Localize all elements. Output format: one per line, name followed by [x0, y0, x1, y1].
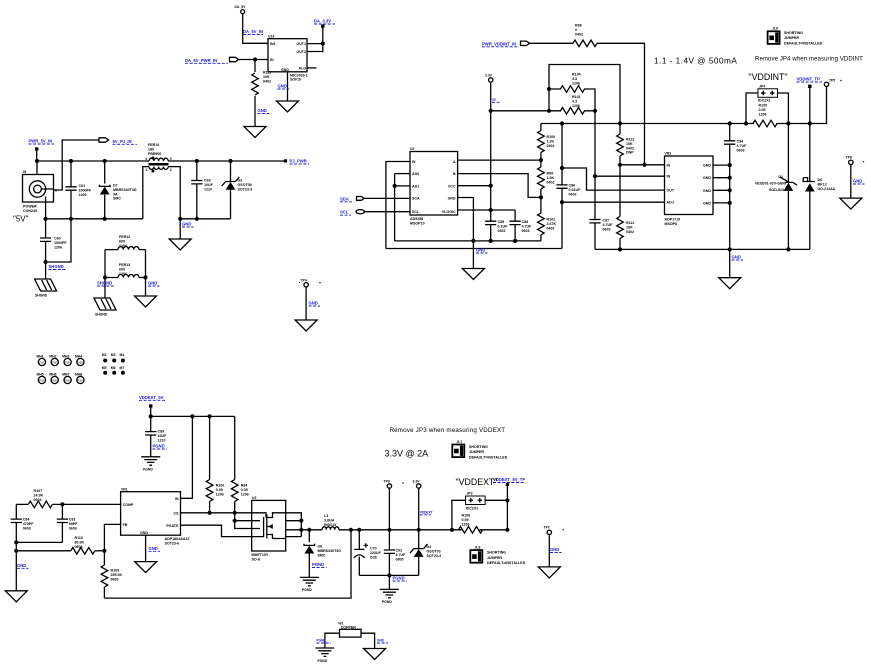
junctions on U3 ground rail — [489, 239, 493, 243]
wire JP4 across R105 — [746, 93, 788, 124]
svg-text:M6: M6 — [111, 366, 116, 370]
shorting jumper icon JP8 — [470, 546, 525, 565]
fiducial M7 — [120, 366, 125, 375]
junction — [593, 174, 597, 178]
svg-text:DNP: DNP — [626, 151, 634, 155]
junctions on 3.3V column — [489, 109, 493, 113]
junction — [539, 195, 543, 199]
wire VDDEXT output rail — [339, 529, 508, 531]
ground under TP8 — [840, 198, 862, 209]
wire input ground rail — [46, 218, 143, 220]
svg-text:0402: 0402 — [547, 144, 555, 148]
mounting hole MH5 — [37, 373, 46, 384]
svg-text:PGND: PGND — [382, 600, 392, 604]
svg-text:D3: D3 — [238, 179, 243, 183]
capacitor C84 470PF 0603 — [11, 504, 34, 542]
svg-text:0.05: 0.05 — [759, 108, 766, 112]
svg-text:M2: M2 — [102, 353, 107, 357]
node label 5V flag into U14 IN — [185, 57, 239, 63]
node label VDDEXT — [420, 510, 433, 515]
svg-text:U14: U14 — [268, 35, 274, 39]
junction — [233, 519, 237, 523]
svg-text:OUT2: OUT2 — [296, 50, 306, 54]
svg-text:3A: 3A — [113, 192, 118, 196]
svg-text:IN: IN — [667, 175, 671, 179]
svg-text:SO-8: SO-8 — [252, 557, 260, 561]
resistor R109 255.0K 0603 — [101, 551, 122, 598]
capacitor C63 10UF 1210 — [191, 161, 213, 219]
mounting hole MH6 — [49, 373, 58, 384]
wire to R110 — [16, 550, 71, 552]
svg-text:MBRS340T3G: MBRS340T3G — [318, 549, 342, 553]
svg-text:0603: 0603 — [111, 577, 119, 581]
wire VR1 GND to ground — [145, 535, 147, 561]
svg-text:5780: 5780 — [64, 380, 70, 383]
resistor R104 4.3 1206 — [561, 73, 585, 93]
svg-text:MH3: MH3 — [62, 355, 69, 359]
wire flag to jack pin — [54, 140, 100, 190]
node label GND — [149, 546, 161, 552]
svg-text:C60: C60 — [54, 237, 61, 241]
wire U2 drain stubs to output — [286, 513, 302, 537]
wire SDA to SCA pin — [364, 197, 410, 199]
svg-text:5V_PJ_IN: 5V_PJ_IN — [113, 139, 132, 144]
wire rail right of choke — [168, 160, 285, 162]
svg-text:C62: C62 — [396, 549, 403, 553]
svg-text:3.3V: 3.3V — [413, 479, 421, 483]
svg-text:0402: 0402 — [569, 192, 577, 196]
wire PGATE to U2 gate — [181, 525, 252, 536]
wire TP4 to ground — [305, 287, 307, 320]
svg-text:0603: 0603 — [75, 545, 83, 549]
svg-text:GND: GND — [377, 639, 385, 643]
svg-text:PGND: PGND — [302, 588, 312, 592]
svg-text:R107: R107 — [34, 489, 43, 493]
svg-text:"5V": "5V" — [13, 215, 29, 224]
svg-text:D8: D8 — [318, 545, 323, 549]
svg-text:10K: 10K — [263, 75, 270, 79]
wire right leg — [145, 278, 147, 297]
wire 3.3V column — [490, 82, 492, 221]
svg-text:COPPER: COPPER — [341, 625, 357, 629]
svg-text:GND: GND — [278, 84, 287, 89]
resistor R106 0.05 1206 — [206, 416, 224, 512]
capacitor C61 1000PF 1206 — [65, 161, 91, 219]
mounting hole MH2 — [49, 355, 58, 366]
wire B pin to divider — [458, 174, 541, 198]
resistor R100 1.2K 0402 — [538, 124, 555, 161]
node label SHGND — [317, 639, 332, 644]
svg-text:1.0K: 1.0K — [547, 176, 555, 180]
power ground under D8 — [300, 577, 319, 592]
svg-text:DA_5V_PWR_IN: DA_5V_PWR_IN — [185, 58, 217, 63]
wire 3.3V to R104/R101 network — [491, 110, 549, 112]
wire U3 ground rail — [395, 240, 541, 242]
svg-text:R110: R110 — [75, 536, 83, 540]
svg-text:600: 600 — [119, 239, 125, 243]
wire DA_5V to U14 IN1 — [243, 14, 268, 44]
jumper JP3 — [466, 492, 486, 511]
flag SDA — [340, 196, 364, 202]
wire R110 to FB node — [95, 550, 105, 552]
svg-text:IN: IN — [667, 163, 671, 167]
svg-text:R100: R100 — [547, 135, 556, 139]
svg-text:PWR_5V_IN: PWR_5V_IN — [29, 139, 53, 144]
svg-text:SHGND: SHGND — [35, 293, 48, 297]
svg-text:R104: R104 — [572, 73, 581, 77]
wire switch node rail — [301, 529, 322, 531]
test point 3.3V — [413, 479, 421, 488]
svg-text:FLG: FLG — [299, 67, 306, 71]
svg-text:1206: 1206 — [119, 272, 127, 276]
wire U3 GND pin to ground — [458, 198, 474, 269]
wire wiper column down to wiper rail — [561, 202, 563, 248]
ferrite FER13 600 1206 — [105, 263, 146, 278]
svg-text:4.3: 4.3 — [572, 99, 577, 103]
svg-text:GND: GND — [309, 301, 318, 306]
ground under U3 — [462, 269, 484, 280]
copper short W1 — [338, 622, 361, 638]
svg-text:VR3: VR3 — [665, 152, 672, 156]
wire JP3 across R108 — [452, 500, 508, 530]
svg-text:JL7: JL7 — [457, 440, 463, 444]
test point TP4 — [299, 279, 321, 287]
wire pad to input rail — [150, 408, 152, 417]
svg-text:0.1UF: 0.1UF — [498, 224, 509, 228]
svg-text:Remove JP3 when measuring VDDE: Remove JP3 when measuring VDDEXT — [390, 427, 506, 434]
ground under VDDINT rail — [719, 278, 741, 289]
svg-text:SOT23-3: SOT23-3 — [427, 554, 442, 558]
svg-text:C88: C88 — [522, 220, 529, 224]
fiducial M3 — [111, 353, 116, 363]
junction — [387, 573, 391, 577]
wire output ground rail — [180, 218, 230, 220]
wire to shield ground — [45, 262, 47, 279]
svg-text:PGND: PGND — [153, 444, 165, 449]
node label DA_5V_IN — [243, 29, 263, 35]
node label GND — [377, 639, 388, 644]
svg-text:SOD-823: SOD-823 — [769, 188, 784, 192]
svg-text:GND: GND — [703, 176, 711, 180]
connector J8 POWER CON245 barrel jack — [23, 170, 58, 213]
svg-text:MH1: MH1 — [37, 355, 44, 359]
junction — [14, 540, 18, 544]
svg-text:1.1 - 1.4V @ 500mA: 1.1 - 1.4V @ 500mA — [654, 57, 737, 66]
wire W pin to wiper rail — [386, 162, 410, 249]
svg-text:FER12: FER12 — [119, 235, 130, 239]
svg-text:5780: 5780 — [39, 380, 45, 383]
svg-text:MMFT10Y: MMFT10Y — [252, 553, 269, 557]
svg-text:C84: C84 — [23, 518, 30, 522]
svg-text:FER14: FER14 — [148, 143, 159, 147]
svg-text:IDC2X1: IDC2X1 — [758, 99, 771, 103]
wire AD0/AD1 column to gnd rail — [394, 174, 396, 241]
test point 3.3V — [485, 74, 493, 83]
power ground left of W1 — [315, 648, 334, 663]
wire AD1 — [395, 185, 410, 187]
resistor R102 2.67K 0402 — [538, 197, 557, 241]
diode D6 BK12 DO-214AA — [803, 124, 835, 250]
svg-text:0402: 0402 — [547, 180, 555, 184]
svg-text:C70: C70 — [370, 547, 377, 551]
svg-text:C87: C87 — [603, 219, 610, 223]
ground — [169, 239, 191, 250]
svg-text:VDDEXT_5V_TP: VDDEXT_5V_TP — [493, 477, 525, 482]
svg-text:GND: GND — [182, 222, 191, 227]
svg-text:SOIC8: SOIC8 — [290, 78, 301, 82]
svg-text:GND: GND — [149, 546, 158, 551]
ferrite FER12 600 1206 — [105, 235, 146, 250]
wire VLOGIC row — [458, 209, 515, 211]
svg-text:180: 180 — [148, 147, 154, 151]
svg-text:R102: R102 — [547, 218, 556, 222]
svg-text:GSOT08: GSOT08 — [238, 183, 252, 187]
svg-text:IDC2X1: IDC2X1 — [466, 507, 479, 511]
wire block sides — [105, 250, 146, 278]
svg-text:IN: IN — [175, 497, 179, 501]
node label VDDEXT_5V pad — [139, 395, 165, 408]
resistor R98 0 0402 — [573, 24, 597, 47]
ground under TP7 — [538, 567, 560, 578]
svg-text:IN1: IN1 — [270, 42, 276, 46]
svg-text:GND: GND — [448, 197, 456, 201]
svg-text:ADP1715: ADP1715 — [665, 218, 681, 222]
svg-text:1206: 1206 — [241, 492, 249, 496]
svg-text:BK12: BK12 — [818, 182, 827, 186]
svg-text:PGND: PGND — [317, 639, 327, 643]
node label GND — [148, 281, 160, 287]
svg-text:C63: C63 — [204, 179, 211, 183]
junctions — [208, 511, 212, 515]
wire to ground — [729, 249, 731, 277]
svg-text:D1: D1 — [778, 175, 783, 179]
svg-text:4: 4 — [145, 157, 147, 161]
svg-text:OUT: OUT — [667, 189, 675, 193]
junction — [321, 42, 325, 46]
svg-text:R98: R98 — [575, 24, 582, 28]
svg-text:"VDDINT": "VDDINT" — [749, 72, 788, 82]
svg-text:JP4: JP4 — [759, 85, 765, 89]
resistor R108 0.05 1206 — [459, 514, 483, 534]
mounting hole MH8 — [75, 373, 84, 384]
wire pad to rail — [36, 151, 38, 161]
transistor U2 P-MOSFET SO-8 — [252, 496, 286, 561]
svg-text:3.8UH: 3.8UH — [324, 518, 335, 522]
resistor R107 24.9K 0603 — [16, 489, 62, 508]
wire R98 to IN1 row — [597, 43, 645, 165]
svg-text:1206: 1206 — [216, 492, 224, 496]
svg-text:TP9: TP9 — [384, 479, 390, 483]
wire FLG stub — [307, 67, 317, 69]
svg-text:PGND: PGND — [312, 562, 324, 567]
wire jack bottom to ground rail — [45, 202, 47, 219]
svg-text:MSOP8: MSOP8 — [665, 222, 678, 226]
svg-text:R105: R105 — [759, 104, 768, 108]
fiducial M4 — [120, 353, 125, 363]
mounting hole MH7 — [62, 373, 71, 384]
svg-text:SCA: SCA — [412, 197, 420, 201]
wire W1 right to GND — [361, 633, 375, 648]
node label GND — [853, 179, 865, 185]
test point TP8 — [846, 156, 865, 165]
diode D1 VESD01-02V-G808 — [755, 124, 797, 250]
capacitor C62 4.7UF 0805 — [384, 530, 406, 576]
wire to power ground — [388, 575, 390, 589]
node label GND — [258, 108, 270, 114]
svg-text:DEFAULT=INSTALLED: DEFAULT=INSTALLED — [784, 41, 823, 45]
svg-text:0402: 0402 — [498, 229, 506, 233]
svg-text:4.7UF: 4.7UF — [737, 144, 748, 148]
svg-text:SOT23-3: SOT23-3 — [238, 187, 253, 191]
svg-text:600: 600 — [119, 267, 125, 271]
junctions — [618, 163, 622, 167]
wire FB row — [104, 524, 120, 550]
wire left leg — [104, 278, 106, 299]
svg-text:0805: 0805 — [396, 557, 404, 561]
op-amp U14 power switch MIC2026-1 — [268, 35, 308, 82]
wire R101 junction down to IN2 row — [594, 111, 596, 176]
capacitor C60 1000PF 1206 — [40, 219, 67, 262]
wire comp gnd node — [15, 542, 17, 550]
fiducial M2 — [102, 353, 107, 363]
svg-text:TP8: TP8 — [846, 156, 852, 160]
svg-text:R84: R84 — [241, 484, 248, 488]
svg-text:GND: GND — [258, 108, 267, 113]
svg-text:5780: 5780 — [52, 362, 58, 365]
svg-text:1210: 1210 — [204, 187, 212, 191]
node label SHGND — [97, 281, 115, 287]
svg-text:10K: 10K — [626, 142, 633, 146]
regulator VR1 ADP1864AUJZ SOT23-6 — [121, 487, 191, 545]
svg-text:MH8: MH8 — [75, 373, 82, 377]
junction — [35, 159, 39, 163]
node pad — [35, 147, 38, 150]
svg-text:GND: GND — [476, 248, 485, 253]
wire COMP row — [62, 503, 120, 505]
op-amp U3 AD5258 MSOP10 — [410, 147, 458, 225]
node 5V_USB pad — [314, 19, 335, 28]
svg-text:255.0K: 255.0K — [111, 573, 123, 577]
svg-text:CS: CS — [174, 511, 180, 515]
svg-text:R108: R108 — [462, 514, 471, 518]
svg-text:R99: R99 — [547, 172, 554, 176]
ground right of W1 — [364, 649, 386, 660]
svg-text:D28: D28 — [370, 555, 377, 559]
svg-text:R112: R112 — [626, 221, 634, 225]
resistor R101 4.3 1206 — [561, 95, 585, 114]
junction — [505, 498, 509, 502]
svg-text:VCC: VCC — [448, 184, 456, 188]
svg-text:FB: FB — [123, 523, 128, 527]
resistor R84 0.05 1206 — [231, 416, 248, 512]
svg-text:C61: C61 — [79, 184, 86, 188]
svg-text:SHGND: SHGND — [95, 312, 108, 316]
wire A pin row — [458, 159, 541, 161]
wire TP7 to ground — [548, 535, 550, 567]
ground — [244, 127, 266, 138]
svg-text:IND013: IND013 — [324, 523, 336, 527]
wire W1 left to PGND — [325, 633, 340, 648]
capacitor C87 4.7UF 0603 — [589, 176, 613, 249]
svg-text:GND: GND — [703, 189, 711, 193]
node label GND — [476, 248, 488, 254]
svg-text:GND: GND — [703, 164, 711, 168]
wire U14 outputs joined — [307, 28, 323, 52]
ground — [135, 296, 157, 307]
svg-text:PGATE: PGATE — [166, 524, 179, 528]
junction — [253, 57, 257, 61]
svg-text:C86: C86 — [569, 184, 576, 188]
svg-text:D6: D6 — [818, 178, 823, 182]
svg-text:C85: C85 — [498, 220, 505, 224]
svg-text:PGND: PGND — [143, 467, 153, 471]
junction + loop wire back to ground rail — [44, 260, 48, 264]
svg-text:DEFAULT=INSTALLED: DEFAULT=INSTALLED — [469, 455, 508, 459]
wire CS row — [181, 512, 252, 514]
wire VDDINT ground rail — [595, 248, 810, 250]
junctions on output rail — [307, 528, 311, 532]
svg-text:1206: 1206 — [54, 245, 62, 249]
wire VDDEXT sense column — [506, 486, 508, 530]
svg-text:1206: 1206 — [462, 522, 470, 526]
regulator VR3 ADP1715 MSOP8 — [665, 152, 714, 226]
svg-text:0.01UF: 0.01UF — [569, 188, 582, 192]
svg-text:5780: 5780 — [77, 362, 83, 365]
svg-text:MH5: MH5 — [37, 373, 44, 377]
svg-text:ADP1864AUJZ: ADP1864AUJZ — [165, 537, 191, 541]
svg-text:SHGND: SHGND — [49, 264, 64, 269]
svg-text:0603: 0603 — [603, 227, 611, 231]
diode D3 GSOT08 — [222, 161, 252, 219]
capacitor C88 4.7UF 0603 — [509, 210, 532, 241]
svg-text:4.7UF: 4.7UF — [603, 223, 614, 227]
svg-text:R106: R106 — [216, 484, 225, 488]
svg-text:OUT1: OUT1 — [296, 42, 306, 46]
svg-text:0402: 0402 — [575, 32, 583, 36]
svg-text:VESD01-02V-G808: VESD01-02V-G808 — [755, 182, 786, 186]
svg-text:470PF: 470PF — [23, 522, 34, 526]
svg-text:1210: 1210 — [158, 438, 166, 442]
svg-text:JUMPER: JUMPER — [487, 556, 502, 560]
svg-text:VLOGIC: VLOGIC — [442, 210, 456, 214]
svg-text:SHORTING: SHORTING — [784, 31, 803, 35]
svg-text:B: B — [453, 172, 456, 176]
svg-text:DA_3.3V: DA_3.3V — [314, 19, 331, 24]
svg-text:4.3: 4.3 — [572, 77, 577, 81]
svg-text:VR1: VR1 — [121, 487, 128, 491]
svg-text:GND: GND — [550, 547, 559, 552]
svg-text:SMC: SMC — [113, 197, 121, 201]
svg-text:TP5: TP5 — [829, 79, 835, 83]
svg-text:VDDEXT: VDDEXT — [420, 510, 433, 514]
svg-text:1206: 1206 — [759, 112, 767, 116]
wire choke bottom winding left to ground rail — [143, 167, 149, 219]
wire output sense column to OUT pin — [562, 124, 665, 191]
svg-text:Remove JP4 when measuring VDDI: Remove JP4 when measuring VDDINT — [755, 57, 863, 63]
wire R104/R101 loop — [549, 65, 620, 124]
common-mode choke FER14 180 FBR500 — [145, 143, 172, 173]
jumper JP4 — [758, 85, 778, 103]
svg-text:220UF: 220UF — [370, 551, 382, 555]
svg-text:TP7: TP7 — [544, 526, 550, 530]
junction — [560, 166, 564, 170]
svg-text:0.05: 0.05 — [216, 488, 223, 492]
svg-text:SMC: SMC — [318, 553, 326, 557]
svg-text:68PF: 68PF — [69, 522, 78, 526]
junction — [14, 549, 18, 553]
svg-text:4.7UF: 4.7UF — [522, 224, 533, 228]
svg-text:JUMPER: JUMPER — [469, 450, 484, 454]
